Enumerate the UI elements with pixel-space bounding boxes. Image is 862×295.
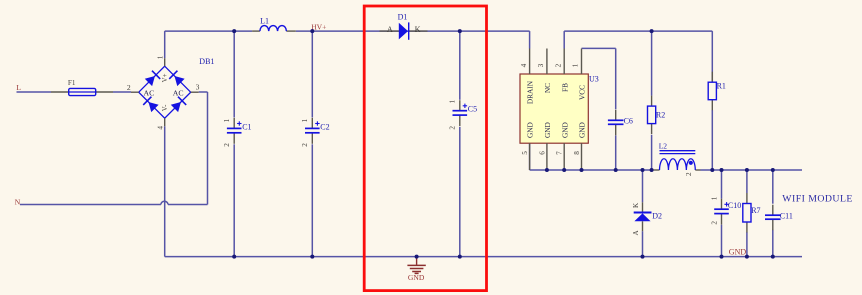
svg-text:1: 1 xyxy=(449,100,457,104)
svg-text:K: K xyxy=(415,25,421,34)
svg-text:NC: NC xyxy=(543,83,552,93)
svg-text:GND: GND xyxy=(526,122,535,138)
svg-text:1: 1 xyxy=(223,118,231,122)
svg-text:L: L xyxy=(16,83,21,92)
svg-text:AC: AC xyxy=(173,88,184,97)
svg-text:2: 2 xyxy=(685,172,693,176)
svg-text:DRAIN: DRAIN xyxy=(526,80,535,104)
svg-text:K: K xyxy=(632,202,640,208)
svg-text:C10: C10 xyxy=(728,201,741,210)
svg-text:GND: GND xyxy=(578,122,587,138)
svg-text:4: 4 xyxy=(520,63,528,67)
svg-text:GND: GND xyxy=(560,122,569,138)
svg-text:R2: R2 xyxy=(656,111,665,120)
svg-text:L2: L2 xyxy=(659,142,668,151)
svg-text:3: 3 xyxy=(537,63,545,67)
svg-text:2: 2 xyxy=(127,83,131,92)
svg-text:GND: GND xyxy=(543,122,552,138)
svg-text:5: 5 xyxy=(521,151,529,155)
svg-text:2: 2 xyxy=(710,221,718,225)
svg-text:4: 4 xyxy=(157,126,165,130)
svg-text:U3: U3 xyxy=(589,74,599,83)
svg-text:C2: C2 xyxy=(320,122,329,131)
svg-text:1: 1 xyxy=(572,63,580,67)
svg-text:2: 2 xyxy=(301,143,309,147)
svg-text:A: A xyxy=(387,25,393,34)
svg-text:VCC: VCC xyxy=(578,85,587,100)
svg-text:2: 2 xyxy=(223,143,231,147)
svg-text:GND: GND xyxy=(408,273,425,282)
svg-text:A: A xyxy=(632,230,640,236)
svg-text:3: 3 xyxy=(196,83,200,92)
svg-text:C11: C11 xyxy=(780,211,793,220)
svg-text:DB1: DB1 xyxy=(199,57,214,66)
svg-text:R1: R1 xyxy=(717,81,726,90)
svg-text:F1: F1 xyxy=(68,79,76,87)
svg-text:L1: L1 xyxy=(260,17,269,26)
svg-text:C1: C1 xyxy=(242,122,251,131)
svg-text:WIFI MODULE: WIFI MODULE xyxy=(782,193,853,204)
svg-text:8: 8 xyxy=(573,151,581,155)
svg-text:GND: GND xyxy=(729,248,747,257)
svg-text:1: 1 xyxy=(710,196,718,200)
svg-text:1: 1 xyxy=(157,55,165,59)
svg-text:6: 6 xyxy=(538,151,546,155)
svg-text:R7: R7 xyxy=(751,206,760,215)
svg-text:C5: C5 xyxy=(468,105,477,114)
svg-text:D1: D1 xyxy=(398,13,408,22)
svg-text:2: 2 xyxy=(554,63,562,67)
svg-text:N: N xyxy=(15,198,21,207)
svg-text:2: 2 xyxy=(449,126,457,130)
svg-text:FB: FB xyxy=(560,83,569,92)
svg-text:C6: C6 xyxy=(624,116,633,125)
svg-text:D2: D2 xyxy=(652,212,662,221)
svg-text:7: 7 xyxy=(556,151,564,155)
svg-text:1: 1 xyxy=(301,118,309,122)
svg-text:V+: V+ xyxy=(162,73,169,82)
svg-text:V-: V- xyxy=(162,104,169,111)
svg-text:AC: AC xyxy=(144,88,155,97)
